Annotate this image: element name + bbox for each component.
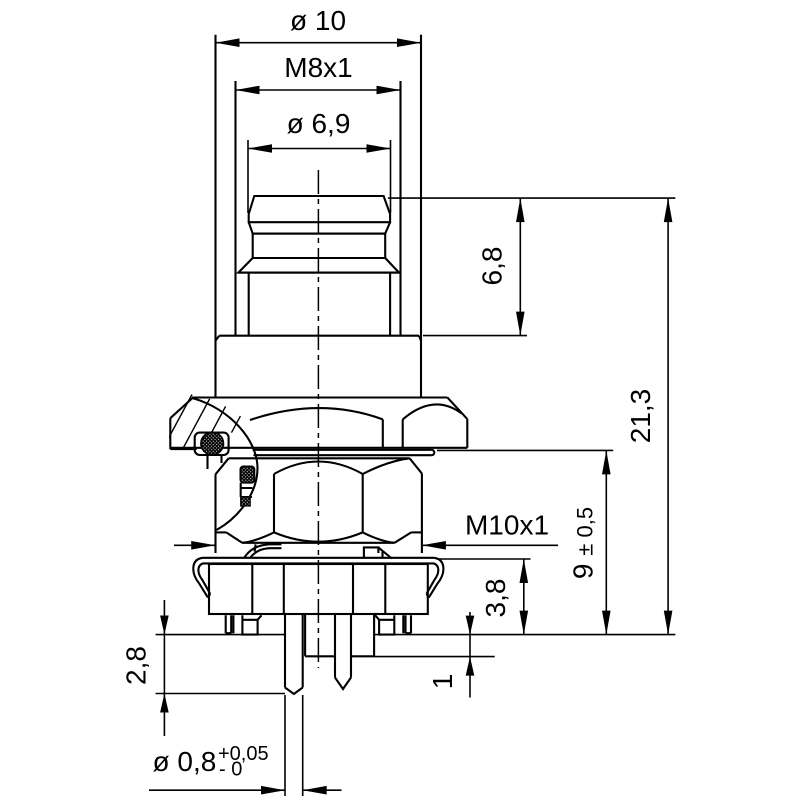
svg-text:ø 0,8: ø 0,8: [153, 746, 217, 777]
svg-text:ø 6,9: ø 6,9: [287, 108, 351, 139]
svg-text:ø 10: ø 10: [290, 5, 346, 36]
svg-text:9 ± 0,5: 9 ± 0,5: [568, 507, 599, 579]
svg-text:21,3: 21,3: [625, 389, 656, 444]
svg-text:1: 1: [427, 674, 458, 690]
svg-text:- 0: - 0: [219, 759, 242, 781]
svg-text:M8x1: M8x1: [284, 52, 352, 83]
svg-text:2,8: 2,8: [121, 646, 152, 685]
svg-text:3,8: 3,8: [480, 579, 511, 618]
svg-text:6,8: 6,8: [477, 247, 508, 286]
svg-text:M10x1: M10x1: [465, 510, 549, 541]
